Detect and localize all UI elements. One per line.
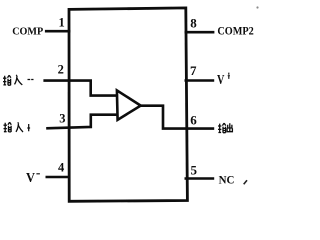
svg-text:2: 2 <box>58 63 64 77</box>
svg-text:5: 5 <box>191 162 198 177</box>
svg-text:3: 3 <box>59 112 65 126</box>
svg-text:8: 8 <box>190 15 197 30</box>
svg-text:6: 6 <box>190 112 197 127</box>
svg-text:7: 7 <box>190 63 197 78</box>
svg-text:V: V <box>26 170 35 185</box>
svg-text:1: 1 <box>59 15 65 29</box>
svg-text:V: V <box>217 72 225 87</box>
svg-text:COMP2: COMP2 <box>217 24 253 38</box>
svg-text:NC: NC <box>219 175 235 187</box>
svg-text:COMP: COMP <box>12 26 43 38</box>
svg-text:4: 4 <box>58 161 65 175</box>
